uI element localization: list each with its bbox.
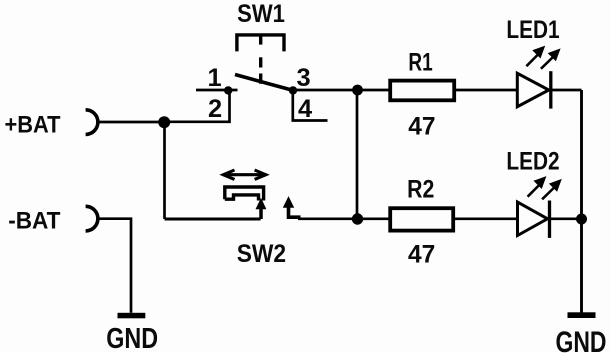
svg-text:R1: R1 <box>408 48 432 76</box>
wire +BAT to junction <box>97 121 165 124</box>
wire R2 to LED2 <box>455 217 518 220</box>
wire LED1 to right rail <box>552 89 582 92</box>
switch SW1 actuator bracket <box>237 35 284 84</box>
svg-text:+BAT: +BAT <box>5 112 61 139</box>
svg-text:GND: GND <box>556 326 607 353</box>
svg-text:4: 4 <box>298 95 312 123</box>
svg-text:LED1: LED1 <box>506 16 559 44</box>
svg-text:2: 2 <box>208 95 222 123</box>
SW1 pin 2 lead <box>165 90 230 122</box>
switch SW2 slide direction arrow <box>223 170 265 179</box>
LED2 diode <box>518 201 550 238</box>
svg-text:47: 47 <box>408 240 435 268</box>
connector +BAT <box>86 110 98 135</box>
wire right rail down <box>580 90 583 313</box>
resistor R2 <box>390 208 453 230</box>
svg-text:GND: GND <box>106 322 158 353</box>
wire junction to R1 <box>358 89 391 92</box>
wire R2 junction to R2 <box>358 217 391 220</box>
wire junction down to SW2 <box>163 122 166 219</box>
resistor R1 <box>390 81 454 101</box>
ground GND2 bar <box>568 312 596 318</box>
svg-text:SW1: SW1 <box>237 0 285 28</box>
wire SW2 to junction R2 <box>298 217 358 220</box>
wire SW2 row left <box>165 218 261 221</box>
junction node at R2 row <box>352 213 363 224</box>
connector -BAT <box>86 206 98 231</box>
switch SW2 slider <box>225 187 264 201</box>
svg-text:3: 3 <box>296 64 310 92</box>
wire -BAT to GND <box>97 219 131 313</box>
SW1 pin 3 contact dot <box>289 86 297 94</box>
svg-text:47: 47 <box>408 112 435 140</box>
SW1 pin 4 lead <box>293 90 328 121</box>
junction node right rail <box>576 214 587 225</box>
SW1 pin 3 lead <box>293 89 358 92</box>
svg-text:1: 1 <box>207 64 221 92</box>
wire SW1 junction down to R2 junction <box>356 90 359 219</box>
wire LED2 to right rail <box>551 217 582 220</box>
svg-text:SW2: SW2 <box>237 240 286 268</box>
LED1 diode <box>517 71 551 108</box>
wire R1 to LED1 <box>456 89 517 92</box>
junction node +BAT <box>158 116 170 128</box>
LED1 light arrows <box>526 46 560 69</box>
svg-text:R2: R2 <box>407 175 434 203</box>
switch SW1 lever <box>235 75 293 91</box>
SW2 contact arrow left <box>256 198 267 209</box>
SW1 pin 1 lead <box>196 89 238 92</box>
SW1 pin 1 contact dot <box>224 86 232 94</box>
LED2 light arrows <box>528 176 562 199</box>
svg-text:-BAT: -BAT <box>8 207 61 234</box>
ground GND1 bar <box>118 313 146 319</box>
svg-text:LED2: LED2 <box>506 148 559 176</box>
SW2 contact arrow right <box>283 196 294 208</box>
junction node at SW1 pin3 rail <box>352 85 363 96</box>
